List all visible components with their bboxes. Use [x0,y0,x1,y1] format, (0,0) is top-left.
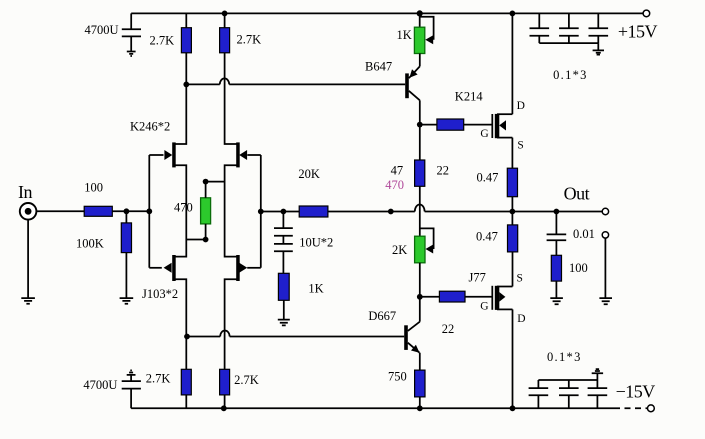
wire K214 drain to V+ rail [511,13,513,114]
transistor J103 left gate wire [149,267,162,269]
transistor J77 channel bar [495,286,500,310]
transistor B647 emitter arrow [409,69,417,78]
wire rail-3 left drain to D667 base [187,336,220,338]
capacitor 0.1*3 top upper plates [530,27,609,29]
svg-text:750: 750 [388,370,407,384]
wire 470 top to right source line [206,181,225,183]
wire output line 20K to hop [328,211,415,213]
svg-text:47: 47 [391,164,404,178]
resistor R 2.7K top-left [181,28,191,53]
capacitor 4700U top plates [122,29,141,36]
node dot rail / 2.7K top-right [222,11,228,17]
wire 4700U bottom to V- rail [130,389,132,409]
wire left 2.7K to K246 left drain lead [174,53,187,144]
capacitor 4700U bottom plates [122,381,141,389]
capacitor 10U*2 middle stub [282,236,284,244]
node dot input / 100K [124,208,130,214]
svg-text:In: In [18,182,32,202]
wire K246 left source to J103 left source lead [174,165,187,256]
svg-text:+15V: +15V [618,22,658,42]
svg-text:4700U: 4700U [85,23,119,37]
svg-text:Out: Out [564,183,590,203]
svg-text:K246*2: K246*2 [130,120,170,134]
svg-text:S: S [517,273,523,285]
node right gate vertical line [260,155,262,268]
node dot rail / K214 drain [510,11,516,17]
node dot output junction [510,209,516,215]
resistor R 2.7K top-right [220,28,230,53]
node dot zobel tap [554,209,560,215]
transistor K246 left gate arrow [164,150,172,160]
wire J77 gate resistor to gate [465,296,492,298]
transistor K246 right gate wire [247,154,260,156]
node dot rail-2 at left drain [183,82,189,88]
wire bottom-left 2.7K to V- rail [185,395,187,408]
wire 100 to ground [555,281,557,298]
potentiometer 2K wiper bracket [420,228,434,249]
svg-text:D: D [517,100,525,112]
wire J77 gate tap to gate resistor [420,296,440,298]
wire 1K to ground [283,300,285,319]
resistor R 470 (green) source coupling [201,198,211,224]
wire 470 bottom stub [205,224,207,240]
ground input jack [21,298,35,304]
transistor J103 left gate arrow [164,263,172,273]
transistor J103 right: channel bar [236,255,240,281]
node dot 10U*2 tap [281,209,287,215]
wire 470 bottom to left source line [186,239,205,241]
transistor B647 base bar [405,73,409,98]
svg-text:2K: 2K [392,243,407,257]
svg-text:0.1*3: 0.1*3 [547,350,582,364]
wire 100K top lead [125,211,127,223]
connector Out terminal [602,208,608,214]
resistor R 100 input series [84,206,112,216]
svg-text:4700U: 4700U [83,378,117,392]
wire J77 drain to V- rail [512,309,514,408]
wire K246 right source to J103 right source lead [225,165,238,256]
capacitor 0.1*3 bottom upper stubs [538,380,597,388]
wire 10U*2 to 1K [282,251,284,273]
ground 100K [120,298,134,304]
capacitor C 4700U top-left stub [130,13,132,29]
node dot input / gate line [146,208,152,214]
wire bottom-right 2.7K to V- rail [224,395,226,408]
svg-text:0.01: 0.01 [573,227,595,241]
wire 750 to V- rail [419,397,421,408]
transistor K246 right gate arrow [239,150,247,160]
node dot on output line [388,209,394,215]
svg-text:G: G [480,128,488,140]
wire hop of rail-3 over right drain line [220,331,229,337]
svg-text:2.7K: 2.7K [150,34,175,48]
svg-text:470: 470 [174,201,193,215]
svg-text:D667: D667 [368,309,396,323]
node dot right gate line / feedback [258,209,264,215]
wire right 2.7K to K246 right drain lead [225,53,238,144]
wire gate-22 tap to K214 gate resistor [420,124,437,126]
capacitor C 10U*2 stub from feedback node [282,212,284,229]
wire D667 emitter to 750 [419,353,421,370]
wire 0.47 upper to output node [511,197,513,225]
svg-text:2.7K: 2.7K [237,33,262,47]
svg-text:J103*2: J103*2 [142,287,178,301]
connector -15V terminal [648,405,655,412]
transistor D667 emitter arrow [411,345,420,353]
wire output line to Out terminal [425,211,603,213]
wire left column top rail to 2.7K [185,13,187,27]
wire 2K to D667 collector [419,263,421,322]
wire 0.1*3 bus to ground [597,43,599,50]
resistor R 1K (mid) [278,273,289,300]
node dot J77 gate tap [417,294,423,300]
ground out return [599,298,612,304]
potentiometer VR 1K (green) body [414,27,424,53]
ground 0.1*3 top [593,50,604,54]
transistor J77 body arrow [499,292,505,302]
transistor K214 channel bar [495,114,500,138]
potentiometer VR 2K (green) body [415,236,425,263]
transistor D667 emitter diagonal [408,343,420,353]
resistor R 750 [415,370,425,397]
transistor K214 body arrow [499,120,506,130]
resistor R 2.7K bottom-left [181,369,191,395]
wire out return to ground [604,238,606,298]
svg-text:22: 22 [437,164,450,178]
wire 470 top stub [205,182,207,198]
transistor Q B647 emitter diagonal [409,66,420,78]
resistor R 100 zobel [551,255,561,281]
svg-text:S: S [517,139,523,151]
node dot J77 drain / V- rail [510,405,516,411]
wire hop of rail-2 over right drain line [220,78,229,84]
capacitor 10U*2 plates [274,228,293,251]
wire K214 gate resistor to gate [464,124,493,126]
resistor R 2.7K bottom-right [220,369,230,395]
resistor R 47(470) bias [415,160,425,186]
transistor J103 left: channel bar [172,255,176,281]
wire bus to inverted ground [596,374,598,381]
wire 0.47 lower to J77 source [512,252,514,287]
wire top rail to 1K trimmer [419,13,421,27]
svg-text:10U*2: 10U*2 [299,235,333,249]
resistor R 0.47 lower [508,225,518,252]
potentiometer 2K wiper arrow [426,245,434,254]
capacitor C 0.1*3 top stubs [539,13,598,28]
node left gate vertical line [148,155,150,268]
svg-text:100: 100 [569,261,588,275]
svg-text:K214: K214 [455,90,484,104]
svg-text:22: 22 [442,322,455,336]
node dot 470 top [203,179,209,185]
wire 0.1*3 top bus [539,42,598,44]
capacitor 0.1*3 bottom lower plates [529,394,608,396]
transistor K214 source lead [497,137,512,139]
ground 1K mid [278,320,290,326]
resistor R 100K input shunt [121,223,131,253]
svg-text:2.7K: 2.7K [146,371,171,385]
wire J103 left drain down to rail-3 [174,279,187,369]
resistor R 22 J77 gate stopper [439,291,465,302]
node dot 470 bottom [203,237,209,243]
transistor B647 collector diagonal [409,91,420,101]
svg-text:B647: B647 [365,60,392,74]
ground top-left 4700U [127,52,136,57]
transistor J77 drain lead [497,308,513,310]
connector In jack outer [20,203,37,220]
transistor J103 right gate wire [247,267,261,269]
svg-text:D: D [517,313,525,325]
transistor K214 drain lead [497,113,512,115]
connector In jack inner dot [25,208,32,215]
capacitor C 4700U bottom stub [130,375,132,381]
wire B647 collector down to 47 resistor [419,100,421,160]
node dot 2.7K bottom-right / V- rail [221,405,227,411]
ground 0.1*3 bottom (inverted) [592,369,603,373]
wire right column top rail to 2.7K [224,13,226,27]
node dot 750 / V- rail [417,405,423,411]
svg-text:1K: 1K [397,28,412,42]
svg-text:J77: J77 [469,271,486,285]
svg-text:100: 100 [84,181,103,195]
node dot rail / 1K trimmer [417,10,423,16]
ground zobel [550,298,563,304]
resistor R 20K feedback [299,206,328,217]
wire 100K bottom lead to ground [125,253,127,298]
capacitor 0.01 plates [547,234,567,240]
wire K214 source to 0.47 [511,138,513,169]
wire dashed segment to -15V terminal [614,407,647,409]
wire bottom negative rail V- [131,407,614,409]
wire input jack to 100 resistor [37,210,85,212]
svg-text:20K: 20K [298,167,320,181]
svg-text:470: 470 [385,178,404,192]
capacitor 0.1*3 top lower stubs [539,36,598,43]
resistor R 22 K214 gate stopper [437,119,464,130]
potentiometer 1K wiper bracket [420,17,434,40]
svg-text:0.47: 0.47 [477,171,499,185]
wire rail-2 continues to B647 base [229,83,405,85]
potentiometer 1K wiper arrow [425,35,433,44]
wire 0.01 to 100 [555,240,557,255]
capacitor C 0.01 stub [555,212,557,235]
wire bias column through output-line hop to 2K [419,186,421,236]
wire hop over bias column [415,205,425,212]
transistor J77 source lead [497,286,513,288]
svg-text:−15V: −15V [616,382,656,402]
node dot rail-3 at left drain [184,334,190,340]
svg-text:0.1*3: 0.1*3 [553,68,588,82]
wire rail-2 left drain to B647 base [186,83,220,85]
ground bottom 4700U (inverted) [127,370,136,375]
capacitor C 0.1*3 bottom stubs [538,395,597,408]
wire top positive rail V+ [131,12,643,14]
wire rail-3 continues to D667 base [230,336,405,338]
connector Out return terminal [602,232,608,238]
transistor M J77 gate line [491,286,493,310]
wire 100 resistor to gate line [112,210,149,212]
wire 0.1*3 bottom bus [538,379,597,381]
wire J103 right drain down through rail-3 hop [225,279,238,369]
capacitor 0.1*3 top lower plates [530,35,609,37]
transistor K246 left gate wire [149,154,163,156]
wire 1K to B647 emitter [419,54,421,67]
transistor D667 base bar [404,325,408,350]
wire 4700U to ground [130,37,132,52]
transistor Q D667 collector diagonal [408,322,420,331]
node dot B647 collector / gate tap [417,122,423,128]
svg-text:2.7K: 2.7K [234,373,259,387]
transistor J103 right gate arrow [239,263,247,273]
svg-text:100K: 100K [76,237,104,251]
svg-text:1K: 1K [308,282,323,296]
resistor R 0.47 upper [507,168,517,197]
svg-text:0.47: 0.47 [476,230,498,244]
wire input jack to ground [27,220,29,298]
connector +15V terminal [643,10,650,17]
svg-text:G: G [480,301,488,313]
transistor K246 right: channel bar [236,142,240,167]
transistor Q-pair K246*2 left: channel bar [172,142,176,167]
wire output/feedback line left of 20K [261,211,299,213]
transistor M K214 gate line [491,114,493,138]
capacitor 0.1*3 bottom upper plates [529,387,608,389]
